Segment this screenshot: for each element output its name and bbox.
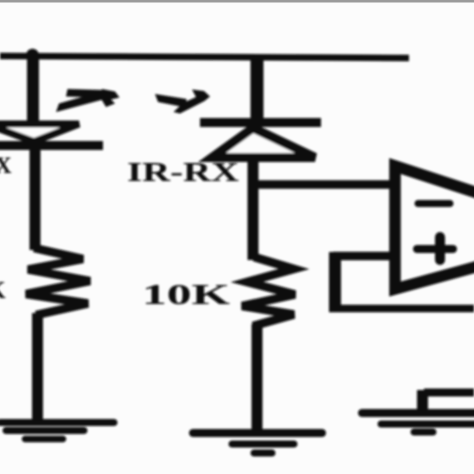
LED D1 IR-TX (emitter diode, pointing down): [0, 124, 103, 146]
wire: stub down to ground: [417, 390, 428, 413]
resistor R1 (10K, label clipped): [26, 248, 90, 315]
emission arrow from LED: [56, 89, 120, 112]
svg-text:K: K: [0, 278, 6, 304]
wire: LED cathode down to resistor R1: [30, 148, 41, 250]
photodiode D2 IR-RX (pointing up): [200, 123, 321, 158]
wire: R2 down to ground: [252, 324, 263, 432]
op-amp non-inverting input symbol (plus): [417, 237, 453, 260]
ground (middle): [193, 433, 322, 453]
svg-text:10K: 10K: [142, 279, 231, 311]
wire: right edge to ground stub: [424, 389, 474, 397]
wire: rail down to IR-RX cathode: [251, 55, 264, 121]
ground (bottom right): [362, 413, 474, 432]
ground (left): [0, 423, 114, 440]
svg-text:IR-RX: IR-RX: [127, 157, 240, 187]
wire: photodiode anode down to resistor R2: [248, 156, 259, 260]
wire: bottom feedback run to right edge: [329, 305, 474, 313]
wire: op-amp non-inverting input: [333, 252, 395, 261]
wire: node to op-amp inverting input: [250, 180, 395, 189]
wire: rail down to IR-TX LED anode: [27, 54, 39, 126]
wire: +V top supply rail: [0, 56, 409, 58]
op-amp inverting input symbol (minus): [418, 200, 450, 207]
svg-text:X: X: [0, 153, 12, 178]
node A: junction dot on rail: [26, 49, 39, 62]
wire: + input down leg: [329, 252, 341, 309]
resistor R2 10K: [242, 257, 295, 326]
reception arrow into IR-RX: [155, 90, 210, 114]
wire: R1 down to ground: [32, 313, 43, 421]
op-amp U1 comparator triangle (apex clipped at right edge): [395, 166, 474, 289]
